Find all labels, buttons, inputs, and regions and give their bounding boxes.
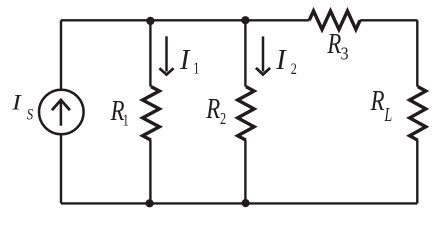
svg-text:R: R [370,85,385,117]
svg-text:2: 2 [291,60,297,78]
svg-text:3: 3 [341,43,349,63]
svg-text:R: R [205,93,220,125]
svg-text:S: S [27,106,33,124]
svg-text:I: I [11,91,22,115]
svg-text:1: 1 [193,60,199,78]
svg-text:I: I [275,45,287,76]
svg-text:1: 1 [123,112,129,131]
svg-text:L: L [384,104,392,126]
svg-text:R: R [327,28,342,60]
svg-text:2: 2 [220,110,226,128]
svg-text:I: I [179,44,191,75]
